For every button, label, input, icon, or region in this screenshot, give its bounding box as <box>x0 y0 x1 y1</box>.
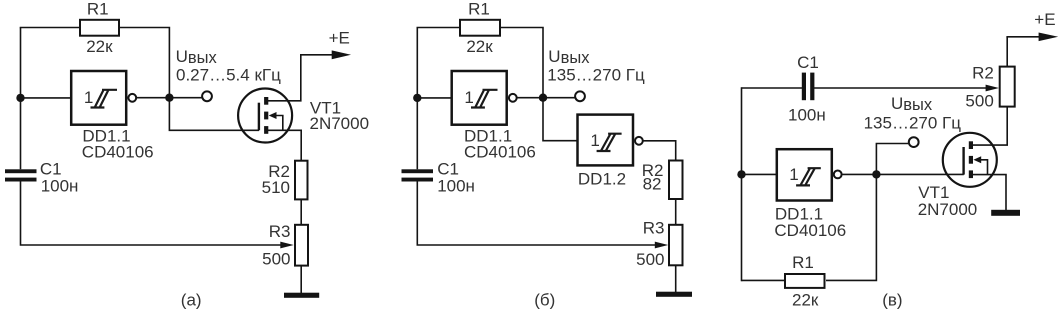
svg-text:Uвых: Uвых <box>891 94 933 114</box>
wire R2 to R3 <box>300 200 302 226</box>
resistor R2 <box>669 161 683 200</box>
wire top rail to R1 <box>20 27 80 29</box>
wiper arrowhead into R3 <box>280 242 293 249</box>
resistor R3 (preset) <box>669 225 683 265</box>
wire R3 to ground <box>300 265 302 293</box>
wire R1 to output node <box>119 28 169 98</box>
wire C1 to R3 wiper <box>21 182 282 246</box>
wire DD1.2 output to R2 <box>643 141 676 161</box>
wire DD1.1 output to node <box>841 173 876 175</box>
svg-text:500: 500 <box>636 250 664 269</box>
wire node to gate <box>876 173 963 175</box>
resistor R2 <box>295 161 308 200</box>
capacitor C1 <box>802 73 815 101</box>
resistor R1 <box>785 274 825 288</box>
svg-text:22к: 22к <box>792 290 819 309</box>
node input junction <box>413 94 421 102</box>
svg-text:+E: +E <box>1034 10 1055 29</box>
power +E arrow <box>1006 33 1058 42</box>
node output terminal <box>202 91 212 101</box>
svg-text:R3: R3 <box>269 222 291 241</box>
wire input <box>21 97 73 99</box>
transistor VT1 <box>943 133 997 187</box>
wire bottom rail to R1 <box>742 279 786 281</box>
wire top rail to R1 <box>417 27 462 29</box>
wire node to output terminal <box>543 97 575 99</box>
node output junction <box>872 170 880 178</box>
svg-text:1: 1 <box>789 165 798 184</box>
wire C1 to R3 wiper <box>417 182 656 246</box>
wire top rail to C1 <box>742 87 803 89</box>
svg-text:100н: 100н <box>788 106 826 125</box>
svg-text:135…270 Гц: 135…270 Гц <box>547 65 645 84</box>
wire source to R2 <box>266 130 301 161</box>
power +E arrow <box>300 50 351 59</box>
wire node to output terminal <box>169 97 201 99</box>
wire drain to +E rail <box>266 55 301 101</box>
svg-text:R2: R2 <box>972 63 994 82</box>
svg-text:2N7000: 2N7000 <box>310 114 370 133</box>
node input junction <box>737 170 745 178</box>
wire R1 to output node <box>499 28 543 98</box>
svg-text:100н: 100н <box>41 177 79 196</box>
wire input <box>742 173 778 175</box>
node output terminal <box>909 137 919 147</box>
svg-text:(в): (в) <box>882 291 902 310</box>
svg-text:1: 1 <box>84 88 93 107</box>
svg-text:22к: 22к <box>466 37 493 56</box>
node output junction <box>165 94 173 102</box>
wire DD1.1 output to node <box>136 97 169 99</box>
svg-text:22к: 22к <box>86 37 113 56</box>
transistor VT1 <box>238 89 292 143</box>
svg-text:(а): (а) <box>181 291 202 310</box>
wire C1 to R2 wiper <box>814 87 986 89</box>
svg-text:DD1.2: DD1.2 <box>578 169 626 188</box>
wire node to DD1.2 input <box>543 98 578 141</box>
resistor R1 <box>80 20 119 36</box>
svg-text:(б): (б) <box>534 291 555 310</box>
wire R2 to +E rail <box>1006 37 1008 67</box>
wire source to ground <box>971 175 1006 211</box>
ground <box>284 293 319 298</box>
svg-text:R1: R1 <box>792 253 814 272</box>
schmitt-trigger inverter DD1.1 <box>71 71 136 125</box>
wire drain to R2 <box>971 107 1007 145</box>
svg-text:CD40106: CD40106 <box>464 143 536 162</box>
schmitt-trigger inverter DD1.2 <box>578 115 643 166</box>
node output terminal <box>575 91 585 101</box>
schmitt-trigger inverter DD1.1 <box>452 71 517 125</box>
ground <box>656 292 692 297</box>
wire node to R1 <box>826 174 876 280</box>
wire left vertical <box>741 87 743 281</box>
svg-text:1: 1 <box>464 88 473 107</box>
capacitor C1 <box>402 169 434 181</box>
wire node to output terminal <box>876 144 908 175</box>
svg-text:+E: +E <box>329 29 350 48</box>
wire node to gate <box>169 98 259 131</box>
wire left vertical (top rail to C1) <box>20 28 22 170</box>
wire left vertical (top rail to C1) <box>416 28 418 170</box>
resistor R3 (preset) <box>295 225 308 266</box>
resistor R2 (preset) <box>1000 67 1015 107</box>
ground <box>991 210 1020 216</box>
svg-text:135…270 Гц: 135…270 Гц <box>864 113 962 132</box>
svg-text:2N7000: 2N7000 <box>918 200 978 219</box>
wire R3 to ground <box>675 265 677 293</box>
svg-text:82: 82 <box>643 174 662 193</box>
node output junction <box>539 94 547 102</box>
wire R2 to R3 <box>675 199 677 226</box>
svg-text:500: 500 <box>965 92 993 111</box>
svg-text:R1: R1 <box>468 0 490 19</box>
svg-text:Uвых: Uвых <box>548 47 590 67</box>
wire input <box>417 97 453 99</box>
svg-text:CD40106: CD40106 <box>82 143 154 162</box>
wiper arrowhead into R3 <box>655 242 668 249</box>
svg-text:R3: R3 <box>643 219 665 238</box>
svg-text:Uвых: Uвых <box>176 47 218 67</box>
wire DD1.1 output to node <box>517 97 544 99</box>
svg-text:1: 1 <box>590 131 599 150</box>
wiper arrowhead into R2 <box>986 85 999 92</box>
svg-text:0.27…5.4 кГц: 0.27…5.4 кГц <box>176 65 281 84</box>
resistor R1 <box>460 20 500 36</box>
node input junction <box>16 94 24 102</box>
svg-text:R1: R1 <box>87 0 109 19</box>
svg-text:C1: C1 <box>797 53 819 72</box>
schmitt-trigger inverter DD1.1 <box>777 149 842 200</box>
svg-text:500: 500 <box>262 250 290 269</box>
svg-text:100н: 100н <box>437 177 475 196</box>
svg-text:510: 510 <box>262 178 290 197</box>
capacitor C1 <box>5 169 37 181</box>
svg-text:CD40106: CD40106 <box>774 221 846 240</box>
